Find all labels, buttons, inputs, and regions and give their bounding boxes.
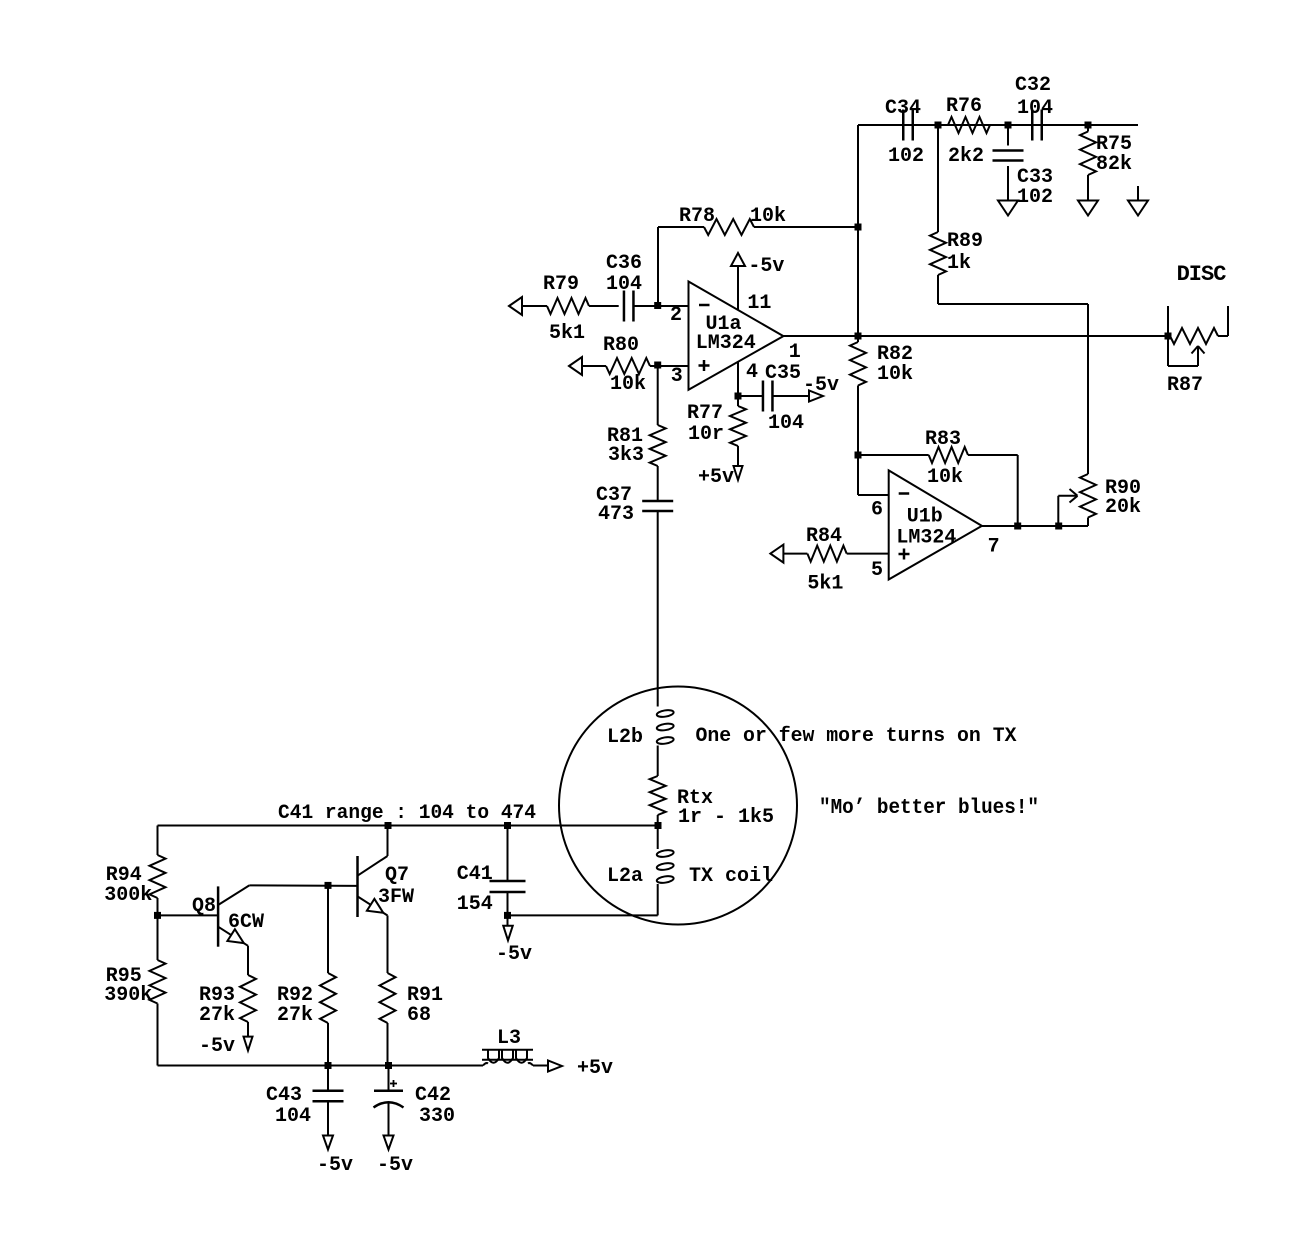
junction C41/top bbox=[504, 822, 511, 829]
svg-text:104: 104 bbox=[275, 1105, 311, 1128]
U1b pin 5 bbox=[871, 559, 883, 582]
svg-text:390k: 390k bbox=[104, 984, 152, 1007]
TX coil label bbox=[689, 865, 773, 888]
Q7 value 3FW bbox=[378, 886, 414, 909]
wire vertical net x858 bbox=[858, 125, 889, 495]
wire oscillator top net bbox=[158, 825, 659, 827]
svg-text:R83: R83 bbox=[925, 428, 961, 451]
R90 value 20k bbox=[1105, 496, 1141, 519]
R91 value 68 bbox=[407, 1004, 431, 1027]
wire C37 to L2b bbox=[657, 512, 659, 707]
-5v arrow below C41 bbox=[503, 926, 513, 941]
note one or few more turns bbox=[696, 725, 1017, 748]
C42 label bbox=[415, 1084, 451, 1107]
svg-text:"Mo’ better blues!": "Mo’ better blues!" bbox=[819, 797, 1039, 820]
C35 value 104 bbox=[768, 412, 804, 435]
svg-text:TX coil: TX coil bbox=[689, 865, 773, 888]
R79 label bbox=[543, 273, 579, 296]
C32 label bbox=[1015, 74, 1051, 97]
svg-text:5: 5 bbox=[871, 559, 883, 582]
svg-text:-5v: -5v bbox=[803, 374, 839, 397]
svg-text:154: 154 bbox=[457, 893, 493, 916]
wire pin11 stem bbox=[737, 266, 739, 310]
Rtx label bbox=[677, 787, 713, 810]
svg-text:-5v: -5v bbox=[496, 943, 532, 966]
capacitor C43 bbox=[313, 1066, 344, 1136]
svg-text:One or few more turns on TX: One or few more turns on TX bbox=[696, 725, 1017, 748]
wire L2b to Rtx bbox=[657, 746, 659, 777]
wire pin3 down bbox=[657, 365, 659, 425]
R78 value 10k bbox=[750, 205, 786, 228]
wire base Q8 bbox=[158, 914, 219, 916]
svg-text:10k: 10k bbox=[877, 363, 913, 386]
wire Q8 emitter down bbox=[247, 946, 249, 975]
resistor Rtx bbox=[650, 776, 666, 815]
svg-text:102: 102 bbox=[888, 145, 924, 168]
R94 value 300k bbox=[104, 884, 152, 907]
-5v arrow below C43 bbox=[323, 1136, 333, 1150]
resistor R79 bbox=[522, 298, 619, 314]
junction C41 bottom node bbox=[504, 912, 511, 919]
junction Q8 base node bbox=[154, 912, 161, 919]
svg-text:104: 104 bbox=[768, 412, 804, 435]
svg-text:11: 11 bbox=[747, 292, 771, 315]
C35 label bbox=[765, 362, 801, 385]
wire Rtx to L2a bbox=[657, 815, 659, 849]
svg-text:104: 104 bbox=[1017, 97, 1053, 120]
R82 label bbox=[877, 343, 913, 366]
svg-text:5k1: 5k1 bbox=[549, 322, 585, 345]
C41 value 154 bbox=[457, 893, 493, 916]
ground below C33 bbox=[998, 201, 1018, 216]
U1a pin 3 bbox=[671, 365, 683, 388]
coil circle bbox=[559, 687, 797, 925]
R81 label bbox=[607, 425, 643, 448]
junction pin3 node bbox=[654, 362, 661, 369]
svg-text:C32: C32 bbox=[1015, 74, 1051, 97]
resistor R80 bbox=[582, 358, 689, 374]
-5v arrow below R93 bbox=[244, 1037, 253, 1051]
svg-text:102: 102 bbox=[1017, 186, 1053, 209]
U1b plus sign bbox=[899, 549, 910, 560]
wire top net (C34-R76-C32 row) bbox=[858, 124, 1138, 126]
wire Q7 collector up bbox=[387, 826, 389, 857]
C37 label bbox=[596, 484, 632, 507]
resistor R76 bbox=[948, 117, 990, 133]
wire C36 to U1a pin2 bbox=[634, 305, 689, 307]
svg-text:3FW: 3FW bbox=[378, 886, 414, 909]
C34 value 102 bbox=[888, 145, 924, 168]
svg-text:27k: 27k bbox=[277, 1004, 313, 1027]
R79 value 5k1 bbox=[549, 322, 585, 345]
capacitor C42 bbox=[374, 1066, 404, 1136]
op-amp U1b bbox=[889, 470, 982, 579]
svg-text:3k3: 3k3 bbox=[608, 444, 644, 467]
svg-text:LM324: LM324 bbox=[896, 527, 956, 550]
U1b pin 7 bbox=[988, 536, 1000, 559]
R95 value 390k bbox=[104, 984, 152, 1007]
svg-text:+5v: +5v bbox=[698, 466, 734, 489]
svg-text:-5v: -5v bbox=[317, 1154, 353, 1177]
transistor Q8 bbox=[218, 885, 249, 946]
wire U1a output net bbox=[783, 335, 1168, 337]
C33 value 102 bbox=[1017, 186, 1053, 209]
svg-text:R89: R89 bbox=[947, 230, 983, 253]
wire R89 to R90 bbox=[938, 304, 1088, 474]
junction R75/top wire bbox=[1085, 122, 1092, 129]
svg-text:1: 1 bbox=[789, 341, 801, 364]
U1b pin 6 bbox=[871, 499, 883, 522]
junction R83/vertical bbox=[855, 452, 862, 459]
L2b label bbox=[607, 726, 643, 749]
+5v arrow below R77 bbox=[734, 466, 743, 480]
svg-text:6CW: 6CW bbox=[228, 911, 264, 934]
junction pin4 node bbox=[735, 393, 742, 400]
C42 plus mark bbox=[390, 1080, 397, 1087]
wire R81 to C37 bbox=[657, 466, 659, 501]
arrow input R84 bbox=[770, 545, 783, 563]
capacitor C32 bbox=[1032, 110, 1042, 141]
resistor R81 bbox=[650, 425, 666, 466]
resistor R78 bbox=[658, 219, 858, 235]
svg-text:10k: 10k bbox=[927, 466, 963, 489]
R84 label bbox=[806, 525, 842, 548]
R77 value 10r bbox=[688, 423, 724, 446]
capacitor C35 bbox=[738, 381, 809, 412]
ground below R75 bbox=[1078, 201, 1098, 216]
R90 wiper bbox=[1058, 489, 1077, 526]
arrow input R79 bbox=[509, 297, 522, 315]
U1a pin 1 bbox=[789, 341, 801, 364]
U1a pin 11 bbox=[747, 292, 771, 315]
C41 label bbox=[457, 863, 493, 886]
C37 value 473 bbox=[598, 503, 634, 526]
junction R89/top wire bbox=[935, 122, 942, 129]
U1a plus sign bbox=[699, 360, 710, 371]
resistor R89 bbox=[930, 125, 946, 304]
L3 label bbox=[497, 1027, 521, 1050]
capacitor C36 bbox=[624, 291, 634, 322]
svg-text:L2b: L2b bbox=[607, 726, 643, 749]
capacitor C33 bbox=[993, 125, 1024, 200]
R93 value 27k bbox=[199, 1004, 235, 1027]
R83 value 10k bbox=[927, 466, 963, 489]
junction R78/vertical bbox=[855, 224, 862, 231]
junction C43/rail bbox=[325, 1062, 332, 1069]
svg-text:10r: 10r bbox=[688, 423, 724, 446]
svg-text:R87: R87 bbox=[1167, 374, 1203, 397]
junction R87/output bbox=[1165, 333, 1172, 340]
R81 value 3k3 bbox=[608, 444, 644, 467]
svg-text:LM324: LM324 bbox=[696, 332, 756, 355]
U1a part LM324 bbox=[696, 332, 756, 355]
C43 label bbox=[266, 1084, 302, 1107]
svg-text:473: 473 bbox=[598, 503, 634, 526]
U1a pin 2 bbox=[670, 304, 682, 327]
svg-text:R77: R77 bbox=[687, 402, 723, 425]
C41 range note bbox=[278, 802, 536, 825]
R83 label bbox=[925, 428, 961, 451]
svg-text:-5v: -5v bbox=[199, 1035, 235, 1058]
resistor R93 bbox=[240, 975, 256, 1037]
svg-text:-5v: -5v bbox=[748, 255, 784, 278]
op-amp U1a bbox=[689, 282, 784, 390]
U1a label bbox=[706, 313, 742, 336]
capacitor C37 bbox=[642, 501, 673, 511]
resistor R77 bbox=[730, 396, 746, 466]
wire Q8 collector to Q7 base bbox=[249, 884, 357, 887]
floating ground symbol right bbox=[1128, 186, 1148, 216]
R77 label bbox=[687, 402, 723, 425]
svg-text:6: 6 bbox=[871, 499, 883, 522]
R95 label bbox=[106, 965, 142, 988]
inductor L2b bbox=[656, 709, 674, 745]
wire C41 stub down bbox=[507, 915, 509, 925]
resistor R94 bbox=[150, 826, 166, 916]
svg-text:1r - 1k5: 1r - 1k5 bbox=[678, 806, 774, 829]
svg-text:300k: 300k bbox=[104, 884, 152, 907]
U1a minus sign bbox=[699, 304, 710, 307]
svg-text:20k: 20k bbox=[1105, 496, 1141, 519]
wire emitter rail net bbox=[158, 1065, 549, 1067]
C32 value 104 bbox=[1017, 97, 1053, 120]
svg-text:+5v: +5v bbox=[577, 1057, 613, 1080]
R87 label bbox=[1167, 374, 1203, 397]
R91 label bbox=[407, 984, 443, 1007]
wire pin4 stem bbox=[737, 362, 739, 396]
svg-text:C41 range : 104 to 474: C41 range : 104 to 474 bbox=[278, 802, 536, 825]
resistor R92 bbox=[320, 885, 336, 1065]
-5v label at C42 bbox=[377, 1154, 413, 1177]
C36 label bbox=[606, 252, 642, 275]
svg-text:L3: L3 bbox=[497, 1027, 521, 1050]
-5v arrow above U1a bbox=[731, 253, 745, 266]
svg-text:68: 68 bbox=[407, 1004, 431, 1027]
wire U1b output net bbox=[982, 525, 1088, 527]
R92 value 27k bbox=[277, 1004, 313, 1027]
svg-text:C36: C36 bbox=[606, 252, 642, 275]
R94 label bbox=[106, 864, 142, 887]
capacitor C34 bbox=[903, 110, 913, 141]
resistor R91 bbox=[380, 973, 396, 1066]
wire Q7 emitter down bbox=[387, 916, 389, 974]
wire L2a down bbox=[508, 884, 658, 915]
C42 value 330 bbox=[419, 1105, 455, 1128]
R80 label bbox=[603, 334, 639, 357]
-5v label at pin11 bbox=[748, 255, 784, 278]
svg-text:C42: C42 bbox=[415, 1084, 451, 1107]
+5v label at L3 bbox=[577, 1057, 613, 1080]
svg-text:R76: R76 bbox=[946, 95, 982, 118]
C36 value 104 bbox=[606, 273, 642, 296]
capacitor C41 bbox=[490, 826, 526, 916]
R78 label bbox=[679, 205, 715, 228]
Q7 label bbox=[385, 864, 409, 887]
-5v label at C43 bbox=[317, 1154, 353, 1177]
svg-text:82k: 82k bbox=[1096, 153, 1132, 176]
svg-text:2k2: 2k2 bbox=[948, 145, 984, 168]
junction C33/top wire bbox=[1005, 122, 1012, 129]
transistor Q7 bbox=[358, 856, 388, 917]
svg-text:1k: 1k bbox=[947, 252, 971, 275]
junction R92 top bbox=[325, 882, 332, 889]
junction pin2 node bbox=[654, 302, 661, 309]
resistor R83 bbox=[858, 447, 1018, 526]
-5v label at R93 bbox=[199, 1035, 235, 1058]
svg-text:R84: R84 bbox=[806, 525, 842, 548]
U1b minus sign bbox=[899, 492, 910, 495]
+5v label at R77 bbox=[698, 466, 734, 489]
svg-text:Q7: Q7 bbox=[385, 864, 409, 887]
Q8 label bbox=[192, 895, 216, 918]
svg-text:L2a: L2a bbox=[607, 865, 643, 888]
svg-text:4: 4 bbox=[746, 361, 758, 384]
R93 label bbox=[199, 984, 235, 1007]
C43 value 104 bbox=[275, 1105, 311, 1128]
R80 value 10k bbox=[610, 373, 646, 396]
svg-text:2: 2 bbox=[670, 304, 682, 327]
svg-text:Q8: Q8 bbox=[192, 895, 216, 918]
L2a label bbox=[607, 865, 643, 888]
R76 value 2k2 bbox=[948, 145, 984, 168]
R75 label bbox=[1096, 133, 1132, 156]
svg-text:C43: C43 bbox=[266, 1084, 302, 1107]
svg-text:C34: C34 bbox=[885, 97, 921, 120]
R84 value 5k1 bbox=[807, 573, 843, 596]
svg-text:10k: 10k bbox=[750, 205, 786, 228]
svg-text:10k: 10k bbox=[610, 373, 646, 396]
svg-text:U1b: U1b bbox=[907, 506, 943, 529]
R92 label bbox=[277, 984, 313, 1007]
svg-text:C35: C35 bbox=[765, 362, 801, 385]
potentiometer R90 bbox=[1080, 474, 1096, 526]
+5v arrow right of L3 bbox=[548, 1061, 562, 1072]
svg-text:-5v: -5v bbox=[377, 1154, 413, 1177]
R90 label bbox=[1105, 477, 1141, 500]
junction R83/output bbox=[1014, 523, 1021, 530]
arrow input R80 bbox=[569, 357, 582, 375]
C34 label bbox=[885, 97, 921, 120]
R75 value 82k bbox=[1096, 153, 1132, 176]
svg-text:R79: R79 bbox=[543, 273, 579, 296]
Rtx value 1r - 1k5 bbox=[678, 806, 774, 829]
-5v arrow right of C35 bbox=[809, 391, 823, 402]
junction U1a output/vertical bbox=[855, 333, 862, 340]
svg-text:104: 104 bbox=[606, 273, 642, 296]
R89 value 1k bbox=[947, 252, 971, 275]
Mo better blues note bbox=[819, 797, 1039, 820]
svg-text:C41: C41 bbox=[457, 863, 493, 886]
svg-text:R78: R78 bbox=[679, 205, 715, 228]
U1b part LM324 bbox=[896, 527, 956, 550]
inductor L2a bbox=[656, 849, 674, 884]
junction Rtx/C41 net bbox=[655, 822, 662, 829]
svg-text:330: 330 bbox=[419, 1105, 455, 1128]
R89 label bbox=[947, 230, 983, 253]
R87 wiper bbox=[1168, 336, 1205, 366]
junction C42/rail bbox=[385, 1062, 392, 1069]
svg-text:7: 7 bbox=[988, 536, 1000, 559]
resistor R82 bbox=[850, 342, 866, 386]
junction Q7 collector/top bbox=[385, 822, 392, 829]
resistor R84 bbox=[783, 546, 888, 562]
-5v label at C41 bbox=[496, 943, 532, 966]
R82 value 10k bbox=[877, 363, 913, 386]
svg-text:R80: R80 bbox=[603, 334, 639, 357]
R76 label bbox=[946, 95, 982, 118]
svg-text:27k: 27k bbox=[199, 1004, 235, 1027]
potentiometer R87 bbox=[1168, 306, 1228, 344]
resistor R95 bbox=[150, 915, 166, 1065]
junction R90 wiper/output bbox=[1055, 523, 1062, 530]
svg-text:5k1: 5k1 bbox=[807, 573, 843, 596]
DISC label bbox=[1177, 262, 1227, 287]
-5v label at C35 bbox=[803, 374, 839, 397]
wire R78 left leg bbox=[657, 227, 659, 306]
resistor R75 bbox=[1080, 125, 1096, 200]
svg-text:DISC: DISC bbox=[1177, 262, 1227, 287]
-5v arrow below C42 bbox=[384, 1136, 394, 1150]
C33 label bbox=[1017, 166, 1053, 189]
svg-text:3: 3 bbox=[671, 365, 683, 388]
inductor L3 bbox=[482, 1050, 533, 1066]
Q8 value 6CW bbox=[228, 911, 264, 934]
U1b label bbox=[907, 506, 943, 529]
U1a pin 4 bbox=[746, 361, 758, 384]
